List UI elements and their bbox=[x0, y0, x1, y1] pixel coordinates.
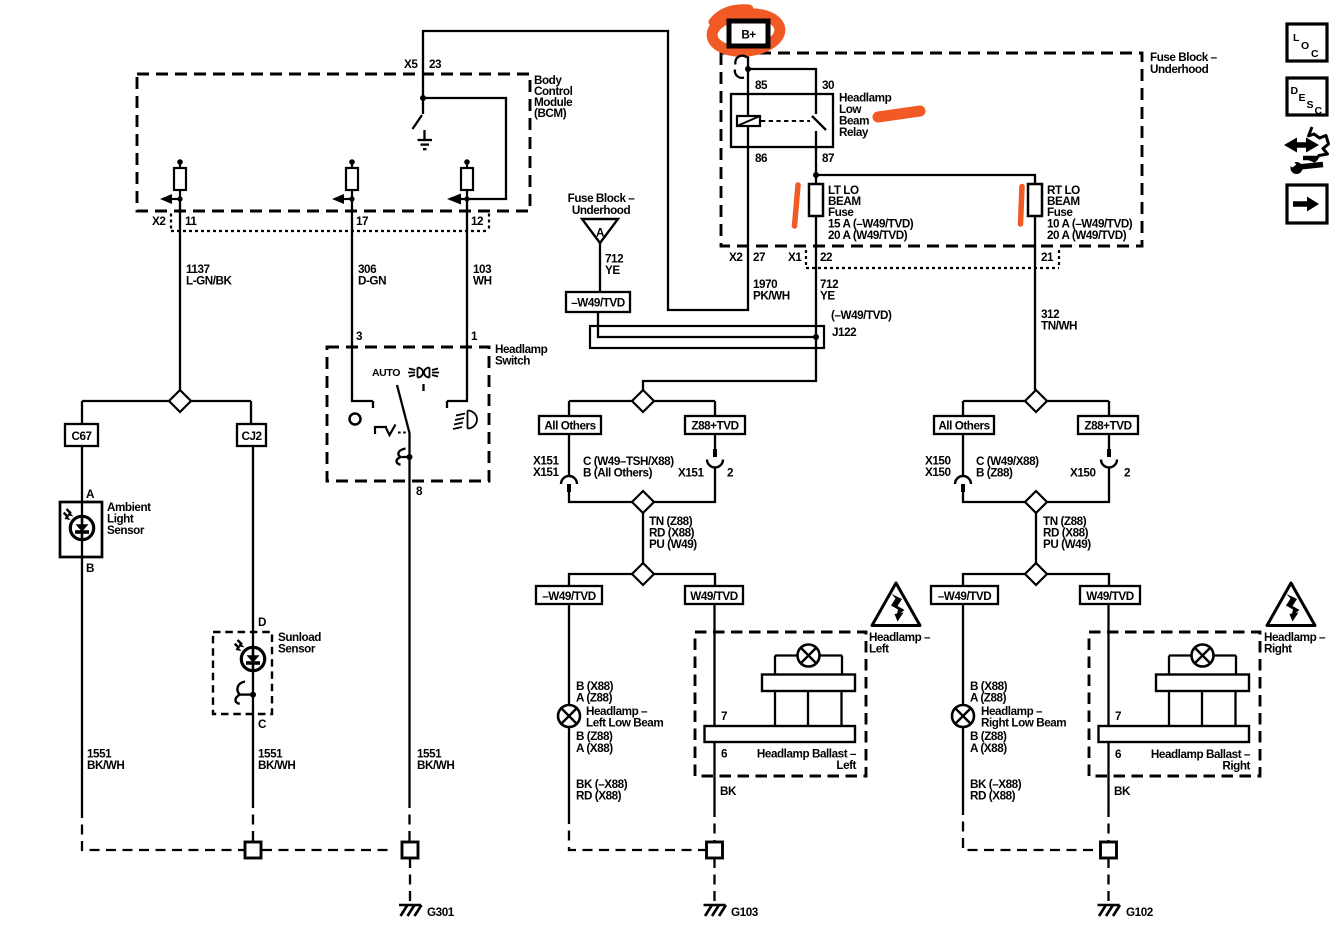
svg-text:B+: B+ bbox=[741, 29, 756, 42]
svg-text:85: 85 bbox=[755, 79, 768, 92]
svg-text:Sensor: Sensor bbox=[107, 524, 145, 537]
svg-text:11: 11 bbox=[185, 215, 197, 228]
svg-text:12: 12 bbox=[471, 215, 484, 228]
svg-text:20 A (W49/TVD): 20 A (W49/TVD) bbox=[828, 229, 908, 242]
svg-text:8: 8 bbox=[416, 485, 423, 498]
svg-text:BK/WH: BK/WH bbox=[417, 759, 454, 772]
svg-text:G102: G102 bbox=[1126, 906, 1154, 919]
svg-text:Right Low Beam: Right Low Beam bbox=[981, 717, 1066, 730]
svg-text:23: 23 bbox=[429, 58, 442, 71]
svg-text:Relay: Relay bbox=[839, 126, 869, 139]
svg-text:A (Z88): A (Z88) bbox=[576, 692, 613, 705]
svg-text:A: A bbox=[596, 227, 605, 240]
svg-text:Left Low Beam: Left Low Beam bbox=[586, 717, 663, 730]
svg-text:Right: Right bbox=[1222, 760, 1250, 773]
svg-text:D-GN: D-GN bbox=[358, 275, 386, 288]
svg-text:A (X88): A (X88) bbox=[576, 742, 613, 755]
svg-text:C: C bbox=[1311, 48, 1319, 60]
svg-text:1: 1 bbox=[471, 330, 478, 343]
svg-text:O: O bbox=[1301, 40, 1309, 52]
svg-text:X1: X1 bbox=[788, 251, 802, 264]
svg-text:BK: BK bbox=[720, 785, 737, 798]
svg-text:Z88+TVD: Z88+TVD bbox=[1084, 420, 1131, 433]
svg-text:RD (X88): RD (X88) bbox=[576, 790, 622, 803]
svg-text:L-GN/BK: L-GN/BK bbox=[186, 275, 233, 288]
svg-text:Switch: Switch bbox=[495, 355, 530, 368]
svg-text:YE: YE bbox=[820, 290, 835, 303]
svg-text:X151: X151 bbox=[678, 467, 704, 480]
svg-text:A (X88): A (X88) bbox=[970, 742, 1007, 755]
svg-text:27: 27 bbox=[753, 251, 765, 264]
svg-text:BK/WH: BK/WH bbox=[87, 759, 124, 772]
svg-text:PU (W49): PU (W49) bbox=[649, 538, 697, 551]
svg-text:Underhood: Underhood bbox=[1150, 63, 1209, 76]
svg-text:86: 86 bbox=[755, 152, 768, 165]
svg-text:BK: BK bbox=[1114, 785, 1131, 798]
svg-text:BK/WH: BK/WH bbox=[258, 759, 295, 772]
svg-text:Sensor: Sensor bbox=[278, 643, 316, 656]
svg-text:17: 17 bbox=[356, 215, 368, 228]
svg-text:All Others: All Others bbox=[544, 420, 596, 433]
svg-text:J122: J122 bbox=[832, 326, 857, 339]
svg-text:B: B bbox=[86, 562, 94, 575]
svg-text:2: 2 bbox=[727, 467, 734, 480]
svg-text:7: 7 bbox=[1115, 710, 1121, 723]
svg-text:A (Z88): A (Z88) bbox=[970, 692, 1007, 705]
svg-text:A: A bbox=[86, 488, 95, 501]
svg-text:87: 87 bbox=[822, 152, 834, 165]
svg-text:X150: X150 bbox=[1070, 467, 1096, 480]
svg-text:C: C bbox=[258, 718, 267, 731]
svg-text:G103: G103 bbox=[731, 906, 759, 919]
svg-text:CJ2: CJ2 bbox=[241, 430, 262, 443]
svg-text:YE: YE bbox=[605, 264, 620, 277]
svg-text:WH: WH bbox=[473, 275, 492, 288]
svg-text:X2: X2 bbox=[729, 251, 743, 264]
svg-text:22: 22 bbox=[820, 251, 833, 264]
svg-text:X5: X5 bbox=[404, 58, 418, 71]
svg-text:W49/TVD: W49/TVD bbox=[690, 590, 738, 603]
svg-text:D: D bbox=[258, 616, 266, 629]
svg-text:B (All Others): B (All Others) bbox=[583, 467, 653, 480]
svg-text:X2: X2 bbox=[152, 215, 166, 228]
svg-text:–W49/TVD: –W49/TVD bbox=[542, 590, 596, 603]
svg-text:30: 30 bbox=[822, 79, 835, 92]
svg-text:W49/TVD: W49/TVD bbox=[1086, 590, 1134, 603]
svg-text:–W49/TVD: –W49/TVD bbox=[571, 297, 625, 310]
svg-text:Z88+TVD: Z88+TVD bbox=[691, 420, 738, 433]
svg-text:3: 3 bbox=[356, 330, 363, 343]
svg-text:2: 2 bbox=[1124, 467, 1131, 480]
svg-text:6: 6 bbox=[721, 748, 728, 761]
svg-text:–W49/TVD: –W49/TVD bbox=[938, 590, 992, 603]
svg-text:(BCM): (BCM) bbox=[534, 107, 567, 120]
svg-text:Underhood: Underhood bbox=[572, 204, 631, 217]
svg-text:Right: Right bbox=[1264, 643, 1292, 656]
svg-text:TN/WH: TN/WH bbox=[1041, 320, 1077, 333]
svg-text:All Others: All Others bbox=[938, 420, 990, 433]
svg-text:E: E bbox=[1299, 92, 1306, 104]
svg-text:Left: Left bbox=[836, 759, 856, 772]
svg-text:Left: Left bbox=[869, 643, 889, 656]
svg-text:RD (X88): RD (X88) bbox=[970, 790, 1016, 803]
svg-text:(–W49/TVD): (–W49/TVD) bbox=[831, 309, 892, 322]
svg-text:G301: G301 bbox=[427, 906, 455, 919]
svg-text:B (Z88): B (Z88) bbox=[976, 467, 1013, 480]
svg-text:D: D bbox=[1291, 85, 1299, 97]
svg-text:AUTO: AUTO bbox=[372, 367, 400, 379]
svg-text:21: 21 bbox=[1041, 251, 1054, 264]
svg-text:X151: X151 bbox=[533, 466, 559, 479]
svg-text:X150: X150 bbox=[925, 466, 951, 479]
svg-text:C67: C67 bbox=[71, 430, 91, 443]
svg-text:S: S bbox=[1307, 99, 1314, 111]
svg-text:PU (W49): PU (W49) bbox=[1043, 538, 1091, 551]
svg-text:6: 6 bbox=[1115, 748, 1122, 761]
svg-text:20 A (W49/TVD): 20 A (W49/TVD) bbox=[1047, 229, 1127, 242]
svg-text:L: L bbox=[1293, 32, 1300, 44]
svg-text:C: C bbox=[1315, 105, 1323, 117]
svg-text:PK/WH: PK/WH bbox=[753, 290, 790, 303]
svg-text:7: 7 bbox=[721, 710, 727, 723]
